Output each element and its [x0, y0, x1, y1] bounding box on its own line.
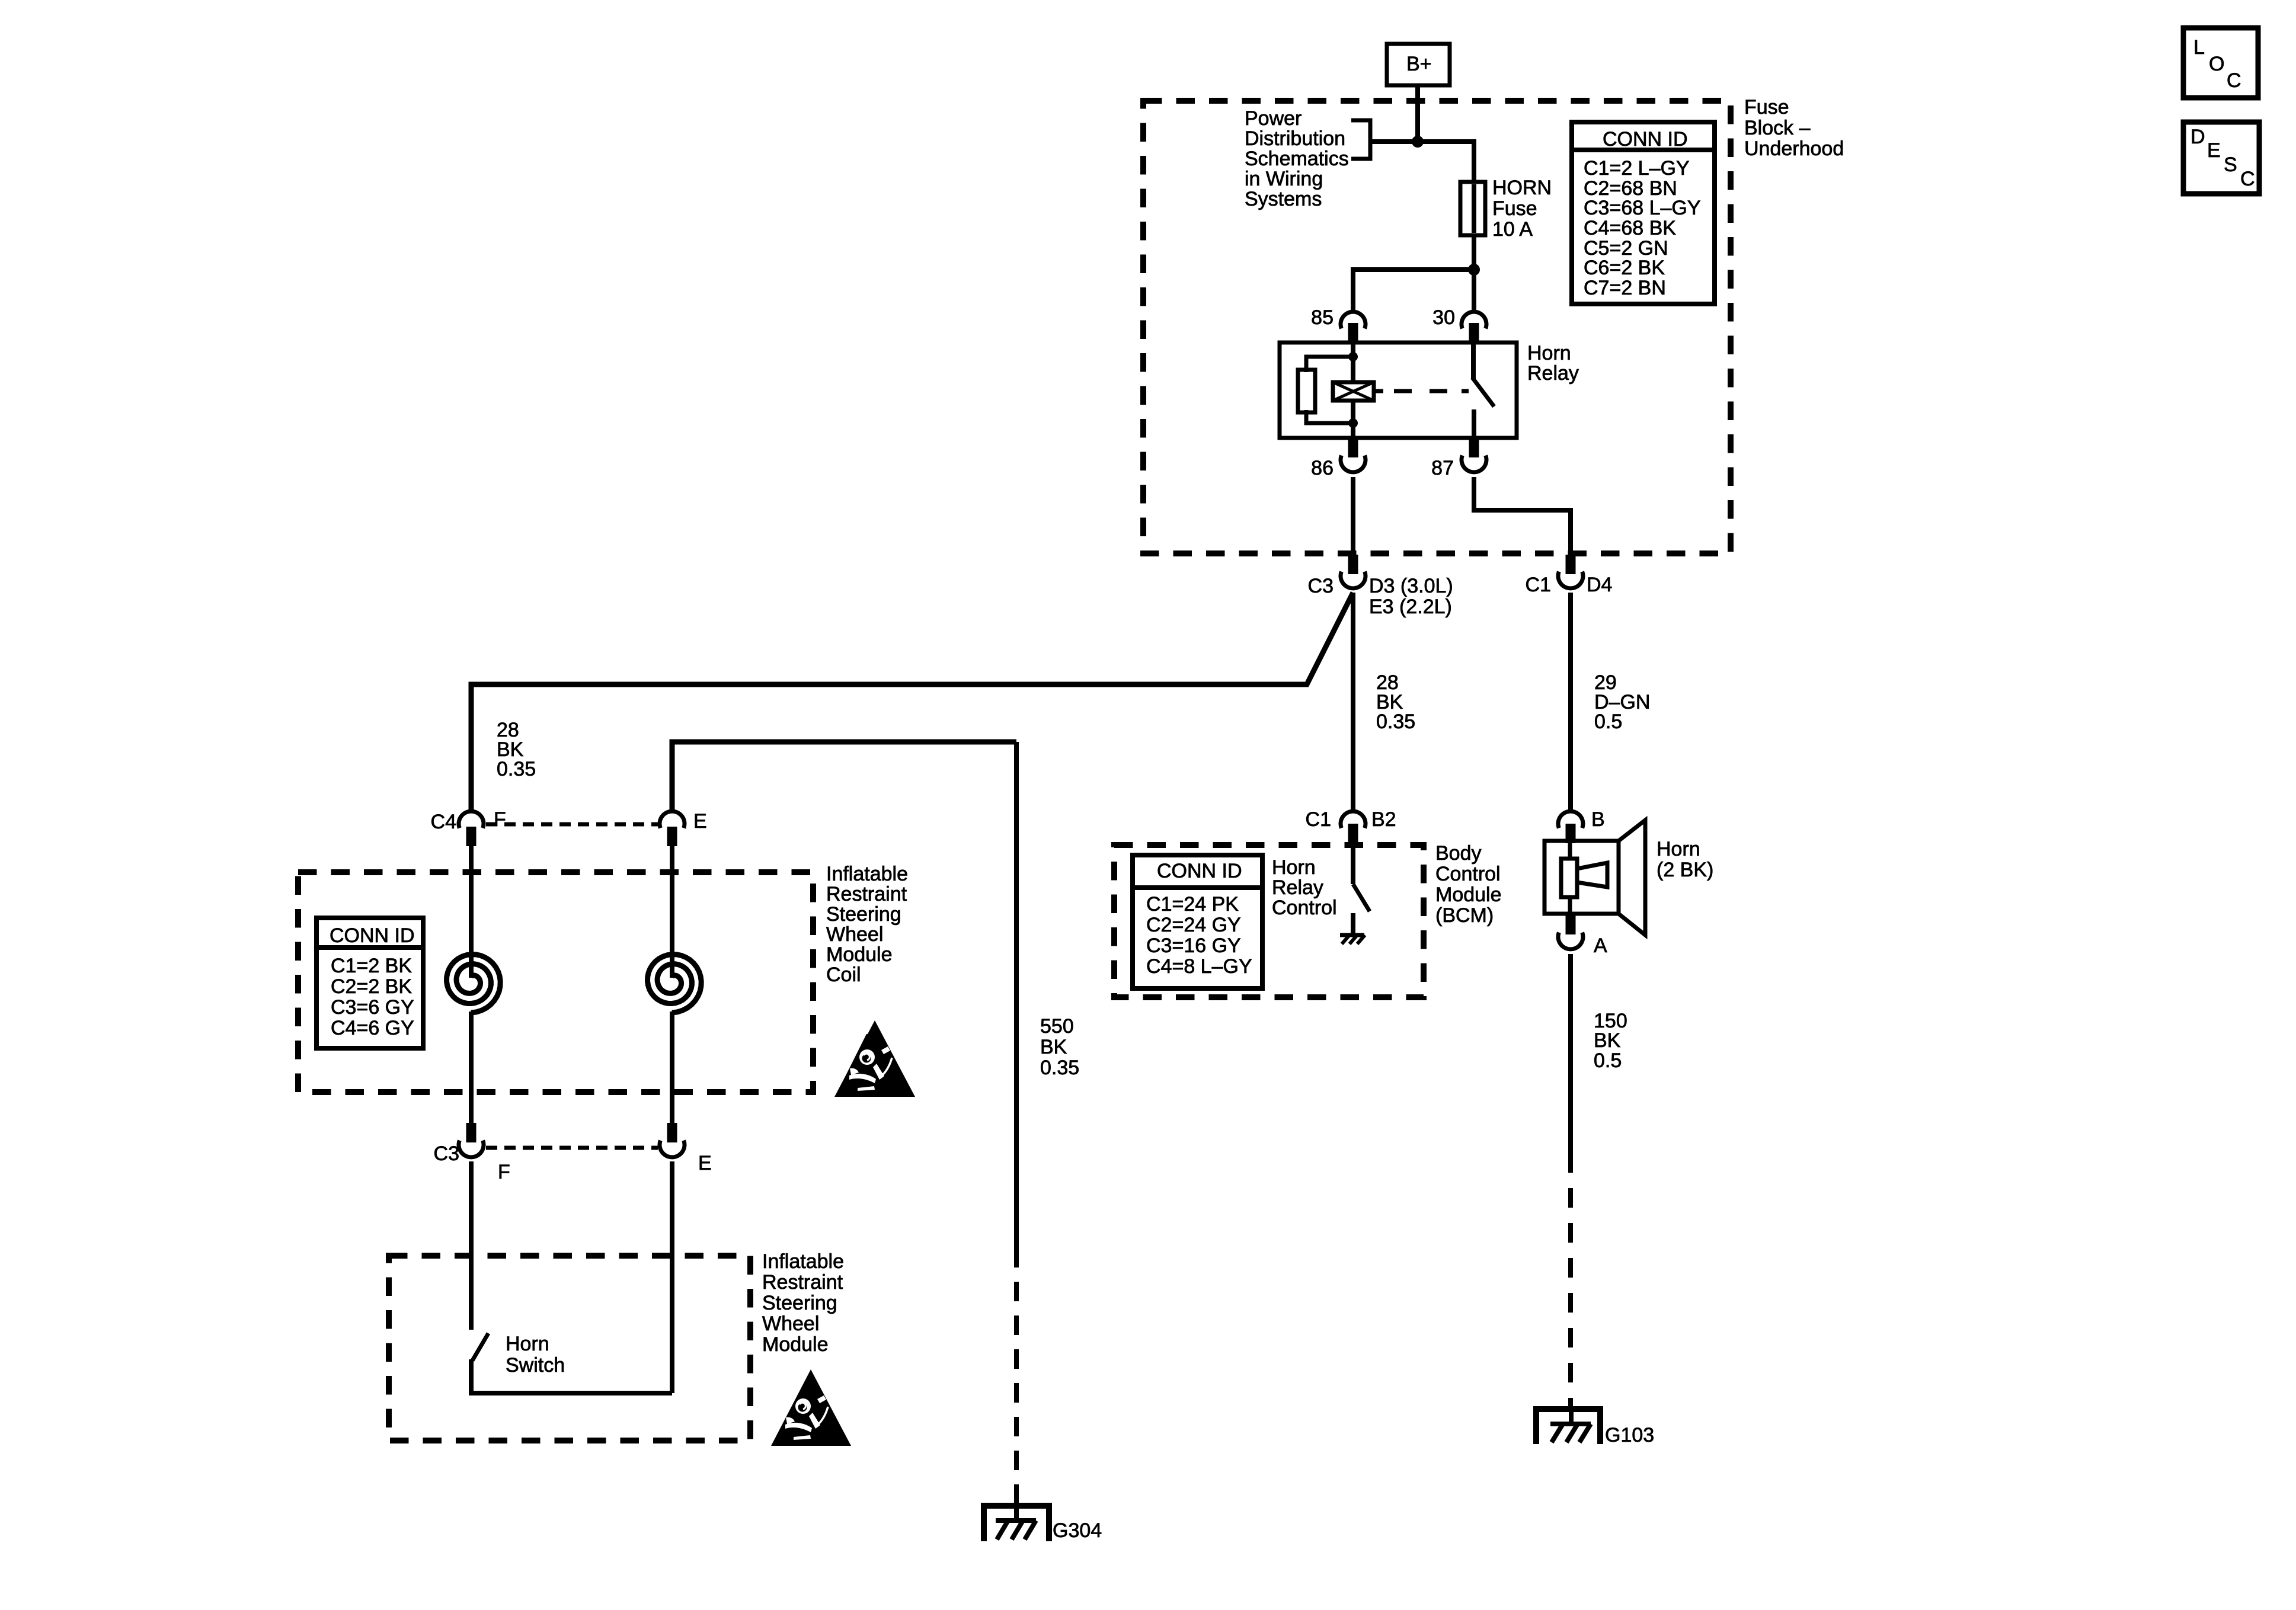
BCM driver switch	[1353, 843, 1370, 934]
coil spiral left	[447, 955, 501, 1013]
svg-text:Restraint: Restraint	[826, 883, 907, 905]
svg-text:Wheel: Wheel	[826, 923, 883, 946]
svg-text:A: A	[1594, 934, 1607, 957]
svg-text:0.35: 0.35	[1376, 710, 1415, 733]
svg-text:Inflatable: Inflatable	[762, 1250, 844, 1273]
svg-text:Wheel: Wheel	[762, 1313, 819, 1335]
svg-text:E: E	[2207, 139, 2221, 162]
svg-text:D: D	[2191, 126, 2205, 148]
svg-text:L: L	[2193, 36, 2205, 59]
label Horn Relay	[1527, 342, 1579, 385]
ground G103	[1536, 1406, 1654, 1446]
wire 550 BK drop dashed to G304	[1014, 1248, 1019, 1505]
svg-text:G103: G103	[1605, 1424, 1654, 1446]
svg-text:C6=2 BK: C6=2 BK	[1584, 257, 1665, 279]
airbag symbol details module triangle	[785, 1395, 828, 1440]
svg-text:C1=2 BK: C1=2 BK	[331, 955, 412, 977]
svg-text:C4=6 GY: C4=6 GY	[331, 1017, 414, 1039]
svg-text:Relay: Relay	[1527, 362, 1579, 385]
CONN ID table steering coil	[316, 918, 423, 1048]
wire fuse to pin 30	[1472, 235, 1476, 313]
svg-text:O: O	[2209, 53, 2224, 75]
svg-text:C1=24 PK: C1=24 PK	[1146, 893, 1239, 916]
pin 86 of horn relay	[1311, 438, 1366, 479]
CONN ID table fuse block	[1572, 122, 1715, 304]
svg-text:C1: C1	[1526, 574, 1551, 596]
svg-text:Switch: Switch	[506, 1354, 565, 1377]
label Power Distribution Schematics in Wiring Systems	[1245, 107, 1349, 210]
wire C3 diagonal to steering wheel branch	[471, 593, 1353, 811]
label Horn Relay Control	[1272, 856, 1337, 919]
relay resistor	[1298, 357, 1353, 423]
svg-text:Horn: Horn	[506, 1333, 549, 1355]
svg-text:BK: BK	[1594, 1029, 1621, 1052]
label Inflatable Restraint Steering Wheel Module Coil	[826, 863, 908, 986]
svg-text:0.5: 0.5	[1594, 1049, 1622, 1072]
wire F pin into coil	[469, 846, 474, 978]
svg-text:Schematics: Schematics	[1245, 148, 1349, 170]
BCM dashed box	[1114, 845, 1424, 997]
svg-text:Coil: Coil	[826, 964, 861, 986]
BCM internal ground	[1340, 935, 1365, 944]
svg-text:C2=2 BK: C2=2 BK	[331, 975, 412, 998]
svg-text:CONN ID: CONN ID	[330, 924, 415, 947]
svg-text:85: 85	[1311, 306, 1334, 329]
wire row2 right down to switch return	[670, 1161, 674, 1393]
svg-text:Steering: Steering	[762, 1292, 837, 1314]
relay actuator dashed linkage	[1374, 389, 1469, 393]
svg-text:Systems: Systems	[1245, 188, 1322, 210]
junction node below fuse	[1468, 264, 1480, 276]
svg-text:Fuse: Fuse	[1492, 197, 1537, 220]
svg-text:Underhood: Underhood	[1744, 137, 1844, 160]
svg-text:F: F	[498, 1161, 510, 1183]
wire pin87 to connector C1	[1474, 477, 1571, 556]
relay junction bottom	[1348, 418, 1358, 428]
svg-text:C3=16 GY: C3=16 GY	[1146, 934, 1241, 957]
svg-text:550: 550	[1040, 1015, 1074, 1038]
label 29 D-GN 0.5	[1594, 671, 1650, 733]
relay coil element	[1333, 382, 1374, 401]
svg-text:E3 (2.2L): E3 (2.2L)	[1369, 596, 1452, 618]
svg-text:D4: D4	[1587, 574, 1612, 596]
airbag warning triangle coil	[834, 1020, 915, 1097]
label HORN Fuse 10 A	[1492, 177, 1552, 241]
label Horn (2 BK)	[1657, 838, 1713, 881]
airbag symbol details coil triangle	[849, 1046, 892, 1091]
svg-text:Fuse: Fuse	[1744, 96, 1789, 119]
connector B horn	[1558, 808, 1605, 843]
label Fuse Block Underhood	[1744, 96, 1844, 160]
svg-text:(BCM): (BCM)	[1435, 904, 1494, 927]
svg-text:C4=68 BK: C4=68 BK	[1584, 217, 1676, 239]
svg-text:0.35: 0.35	[1040, 1057, 1079, 1079]
ground G304	[984, 1503, 1102, 1542]
LOC reference box	[2183, 28, 2258, 98]
svg-text:C3: C3	[1308, 575, 1334, 597]
svg-text:BK: BK	[1040, 1036, 1067, 1058]
pin 85 of horn relay	[1311, 306, 1366, 343]
airbag warning triangle module	[771, 1369, 851, 1446]
svg-text:C1: C1	[1306, 808, 1331, 831]
connector C3 D3/E3	[1308, 555, 1453, 618]
connector A horn	[1558, 915, 1607, 957]
svg-text:CONN ID: CONN ID	[1603, 128, 1688, 151]
relay switch contact from pin30	[1471, 343, 1476, 379]
svg-text:Inflatable: Inflatable	[826, 863, 908, 885]
wire C3 down to BCM branch	[1351, 593, 1355, 811]
svg-text:C1=2 L–GY: C1=2 L–GY	[1584, 157, 1690, 180]
horn assembly	[1544, 820, 1645, 935]
connector C1 B2	[1306, 808, 1396, 843]
svg-text:86: 86	[1311, 457, 1334, 479]
label 28 BK 0.35 left	[497, 719, 536, 780]
wire pin86 to connector C3	[1351, 477, 1355, 556]
svg-text:in Wiring: in Wiring	[1245, 168, 1323, 190]
svg-text:C: C	[2240, 168, 2255, 190]
svg-text:D3 (3.0L): D3 (3.0L)	[1369, 575, 1453, 597]
label Inflatable Restraint Steering Wheel Module	[762, 1250, 844, 1356]
wire horn to G103 dashed	[1568, 1153, 1573, 1410]
svg-text:C2=24 GY: C2=24 GY	[1146, 914, 1241, 936]
wire B+ to junction	[1415, 85, 1420, 144]
svg-text:Horn: Horn	[1272, 856, 1316, 879]
svg-text:HORN: HORN	[1492, 177, 1552, 199]
svg-text:Horn: Horn	[1527, 342, 1571, 364]
dashed connector mate line row2	[486, 1146, 658, 1150]
relay switch blade	[1472, 377, 1494, 406]
horn switch	[471, 1333, 672, 1393]
svg-text:Relay: Relay	[1272, 876, 1323, 899]
svg-text:E: E	[698, 1152, 712, 1174]
svg-text:C4: C4	[431, 811, 456, 833]
dashed connector mate line F-E	[486, 822, 658, 827]
svg-text:C3=6 GY: C3=6 GY	[331, 996, 414, 1019]
svg-text:87: 87	[1431, 457, 1454, 479]
wire 550 BK drop solid	[1014, 742, 1019, 1248]
svg-text:Body: Body	[1435, 842, 1482, 865]
svg-text:Horn: Horn	[1657, 838, 1700, 860]
wire coil to connector row2 left	[469, 1012, 474, 1125]
junction node at B+ feed	[1412, 136, 1424, 148]
label Body Control Module (BCM)	[1435, 842, 1502, 927]
label 550 BK 0.35	[1040, 1015, 1079, 1079]
fuse block underhood dashed box	[1143, 101, 1731, 553]
wire bracket to fuse top	[1370, 142, 1474, 184]
wire horn to G103 solid	[1568, 954, 1573, 1153]
coil spiral right	[648, 955, 702, 1013]
connector C4 F	[431, 808, 506, 846]
svg-text:10 A: 10 A	[1492, 218, 1533, 241]
relay junction top	[1348, 352, 1358, 361]
relay internal wire coil to pin86	[1351, 401, 1355, 438]
wire row2 left into switch box	[469, 1161, 474, 1330]
relay switch lower contact to pin87	[1472, 409, 1476, 438]
svg-text:CONN ID: CONN ID	[1157, 860, 1242, 882]
CONN ID table BCM	[1133, 855, 1262, 988]
svg-text:0.35: 0.35	[497, 758, 536, 780]
wire C1 down to horn	[1568, 593, 1573, 811]
svg-text:B+: B+	[1406, 53, 1432, 75]
svg-text:G304: G304	[1053, 1519, 1102, 1542]
svg-text:Restraint: Restraint	[762, 1271, 843, 1294]
svg-text:Block –: Block –	[1744, 117, 1811, 139]
relay internal wire pin85 to coil	[1351, 343, 1355, 382]
svg-text:Module: Module	[826, 943, 893, 966]
connector C3 F row2	[434, 1123, 510, 1183]
wire branch to pin 85	[1353, 270, 1474, 313]
svg-text:C3=68 L–GY: C3=68 L–GY	[1584, 197, 1701, 219]
svg-text:Control: Control	[1272, 897, 1337, 919]
svg-text:E: E	[693, 810, 707, 833]
connector E row2	[660, 1123, 712, 1174]
svg-text:C3: C3	[434, 1142, 459, 1165]
wire E pin into coil right	[670, 846, 674, 978]
steering wheel coil dashed box	[298, 872, 813, 1092]
svg-text:C4=8 L–GY: C4=8 L–GY	[1146, 955, 1252, 978]
svg-text:F: F	[494, 808, 506, 831]
label 28 BK 0.35 mid	[1376, 671, 1415, 733]
label 150 BK 0.5	[1594, 1010, 1627, 1072]
svg-text:B: B	[1591, 808, 1605, 831]
fuse HORN 10A	[1460, 182, 1485, 235]
svg-text:Power: Power	[1245, 107, 1302, 130]
svg-text:C: C	[2227, 69, 2241, 92]
pin 30 of horn relay	[1432, 306, 1486, 343]
svg-text:0.5: 0.5	[1594, 710, 1622, 733]
battery feed B+ box	[1387, 44, 1450, 85]
connector E top	[660, 810, 707, 846]
svg-text:Distribution: Distribution	[1245, 127, 1345, 150]
wire coil right to connector row2	[670, 1012, 674, 1125]
connector C1 D4	[1526, 555, 1613, 596]
wire E up and over to 550 drop	[672, 742, 1016, 811]
svg-text:Module: Module	[1435, 884, 1502, 906]
svg-text:S: S	[2224, 153, 2237, 176]
svg-text:C7=2 BN: C7=2 BN	[1584, 277, 1666, 299]
bracket for power distribution reference	[1351, 120, 1370, 159]
svg-text:30: 30	[1432, 306, 1455, 329]
svg-text:B2: B2	[1371, 808, 1396, 831]
horn switch module dashed box	[389, 1256, 750, 1441]
svg-text:Steering: Steering	[826, 903, 901, 926]
svg-text:Control: Control	[1435, 863, 1501, 885]
svg-text:Module: Module	[762, 1333, 829, 1356]
svg-text:(2 BK): (2 BK)	[1657, 859, 1713, 881]
pin 87 of horn relay	[1431, 438, 1486, 479]
horn relay box	[1280, 343, 1517, 438]
DESC reference box	[2183, 122, 2259, 194]
